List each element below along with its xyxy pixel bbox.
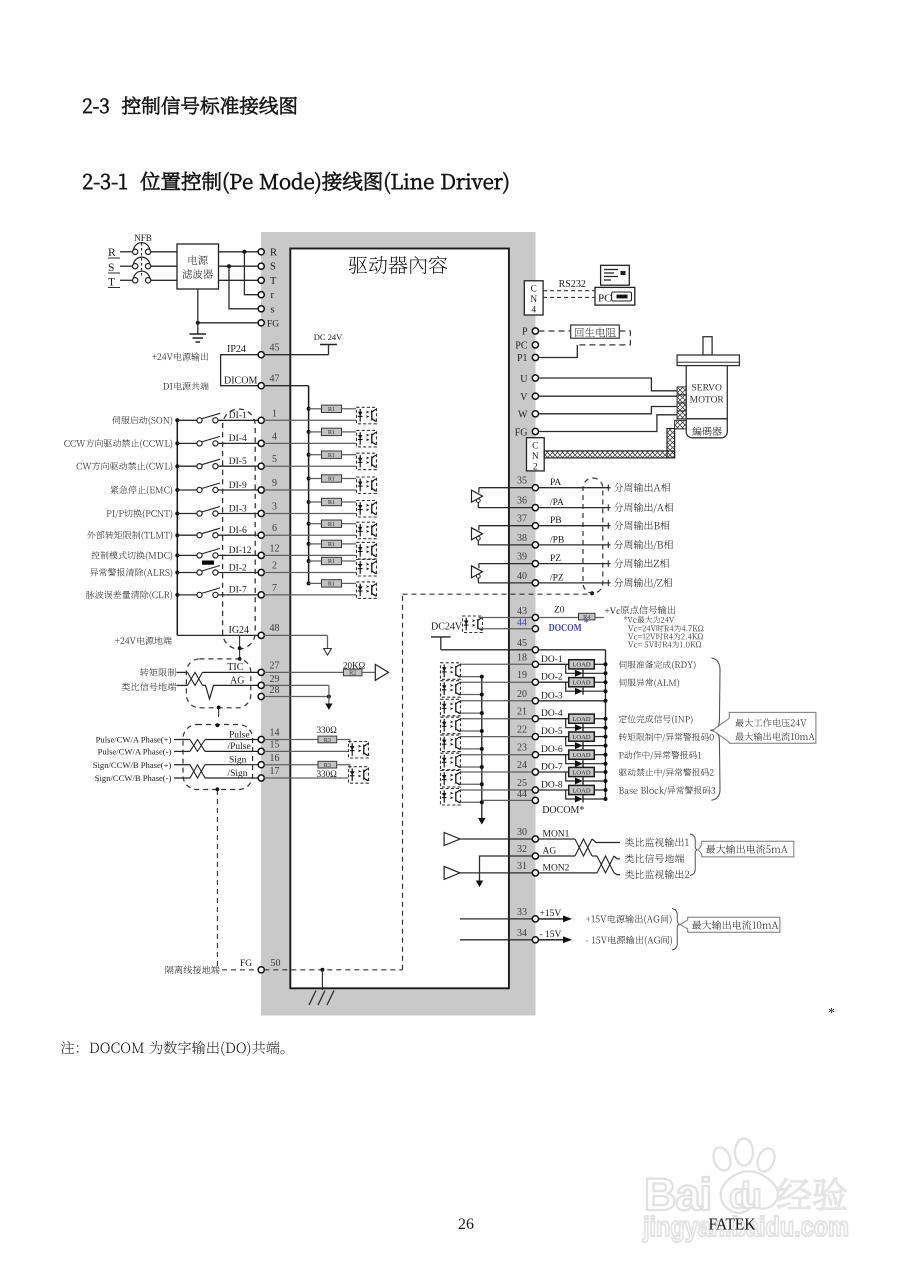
junction DICOM bus row DI-9 [307, 477, 311, 481]
switch DI-7 [197, 588, 220, 598]
svg-text:DOCOM: DOCOM [549, 622, 582, 634]
wire -15V internal [460, 939, 535, 941]
optocoupler DI row DI-12 [357, 542, 377, 559]
terminal 25 (DO-8) [532, 787, 538, 793]
svg-text:Pulse: Pulse [229, 730, 250, 740]
wire bus to switch DI-9 [177, 489, 197, 491]
watermark 经验 [777, 1178, 846, 1211]
wire end tick PB [607, 523, 609, 529]
signal ground arrow (IG24) [324, 649, 332, 656]
wire FG ground drop [321, 970, 323, 990]
svg-text:S: S [108, 262, 114, 274]
wire 45 to load bus [539, 649, 606, 651]
optocoupler DO-5 [441, 735, 461, 752]
motor terminal hatching V [677, 395, 686, 403]
svg-text:PB: PB [550, 516, 562, 526]
svg-text:9: 9 [272, 478, 277, 489]
dashed group box analog torque pair [186, 659, 250, 708]
encoder cable (shielded) vertical [667, 429, 675, 458]
wire DO-7 to load [539, 771, 569, 773]
label 分周输出A相 [614, 483, 670, 492]
optocoupler DI row DI-3 [357, 501, 377, 518]
wire R2 to amplifier [362, 671, 375, 673]
svg-text:MOTOR: MOTOR [690, 396, 725, 406]
junction load DO-2 bus [604, 680, 608, 684]
label 转矩限制 [140, 668, 176, 676]
terminal s [258, 306, 264, 312]
note Vc=24V R4 4.7K [628, 625, 703, 632]
wire load DO-1 to bus [594, 663, 605, 665]
label DI-7 脉波误差量清除(CLR) [86, 591, 172, 601]
servo drive enclosure frame [261, 232, 536, 1016]
dashed group box DI labels [223, 409, 256, 649]
wire opto DO-4 to bus [461, 730, 482, 732]
ground arrow DO bus [478, 818, 486, 825]
wire DICOM bus to R1 row DI-6 [309, 523, 322, 525]
resistor R1 row DI-3 [322, 498, 342, 506]
terminal 33 (+15V) [532, 916, 538, 922]
junction load DO-1 bus [604, 662, 608, 666]
svg-text:50: 50 [271, 958, 281, 969]
resistor R4 [579, 613, 596, 621]
brace DO outputs [710, 658, 720, 801]
junction opto DO-4 bus [480, 729, 484, 733]
resistor R1 row DI-1 [322, 405, 342, 413]
svg-text:/Sign: /Sign [228, 769, 248, 779]
wire AG internal [480, 856, 536, 881]
junction DI bus [175, 593, 179, 597]
svg-text:R1: R1 [328, 452, 335, 459]
svg-text:FG: FG [267, 319, 279, 329]
svg-text:4: 4 [531, 306, 536, 316]
wire opto DO-5 to bus [461, 748, 482, 750]
svg-text:29: 29 [270, 674, 280, 685]
terminal U [532, 375, 538, 381]
svg-text:Pulse/CW/A Phase(-): Pulse/CW/A Phase(-) [98, 747, 172, 757]
wire PB to terminal [479, 525, 536, 527]
junction DI bus [175, 418, 179, 422]
wire PA to terminal [479, 487, 536, 489]
terminal r [258, 292, 264, 298]
switch DI-6 [197, 528, 220, 538]
junction DI bus [175, 512, 179, 516]
load DO-8 [569, 785, 595, 794]
svg-text:r: r [271, 290, 275, 301]
label 类比监视输出2 [625, 870, 690, 879]
terminal FG (mains) [258, 320, 264, 326]
junction shield analog bottom [217, 706, 221, 710]
terminal FG (motor) [532, 428, 538, 434]
terminal 43 (Z0) [532, 614, 538, 620]
svg-text:32: 32 [517, 844, 527, 855]
switch DI-2 [197, 566, 220, 576]
wire switch to terminal DI-6 [218, 534, 258, 536]
wire terminal DI-1 into drive [264, 419, 356, 421]
wire Z0 opto to pin43 [479, 617, 536, 619]
svg-text:33: 33 [517, 907, 527, 918]
wire DICOM bus to R1 row DI-12 [309, 543, 322, 545]
wire R1 to optocoupler row DI-1 [342, 408, 357, 410]
svg-text:DI-2: DI-2 [229, 563, 247, 573]
wire opto DO-6 to terminal [461, 754, 536, 756]
dashed isolation boundary wire FG to barrier [264, 969, 402, 971]
wire IG24 into drive [264, 634, 327, 636]
wire R1 to optocoupler row DI-12 [342, 543, 357, 545]
junction DI bus [175, 488, 179, 492]
svg-text:R1: R1 [328, 558, 335, 565]
svg-text:R: R [270, 247, 277, 258]
svg-text:C: C [531, 285, 537, 295]
motor encoder section [686, 419, 727, 438]
resistor R3 (sign) [318, 761, 337, 769]
wire DICOM bus to R1 row DI-4 [309, 431, 322, 433]
buffer amp MON1 [444, 833, 460, 846]
resistor R1 row DI-4 [322, 428, 342, 436]
wire terminal DI-2 into drive [264, 572, 356, 574]
junction DICOM bus row DI-1 [307, 407, 311, 411]
wire /PB external [539, 544, 611, 546]
external jumper IP24-DICOM [221, 355, 259, 386]
dashed wire regen resistor to PC [577, 331, 630, 345]
optocoupler DI row DI-4 [357, 430, 377, 447]
label DI-2 异常警报清除(ALRS) [90, 568, 172, 578]
motor terminal hatching U [677, 387, 686, 395]
svg-text:12: 12 [270, 543, 280, 554]
flyback diode DO-4 [566, 719, 606, 732]
junction DI bus [175, 464, 179, 468]
wire bus to switch DI-7 [177, 594, 197, 596]
DO opto supply bus [481, 677, 483, 819]
svg-text:DO-3: DO-3 [541, 691, 563, 701]
wire load DO-7 to bus [594, 771, 605, 773]
wire 14 to R3 [264, 739, 318, 741]
line driver PZ pair [472, 564, 483, 583]
svg-text:FG: FG [240, 959, 252, 969]
wire /PA external [539, 507, 611, 509]
svg-text:LOAD: LOAD [572, 680, 591, 687]
brace 15V outputs [672, 909, 680, 951]
svg-text:7: 7 [272, 583, 277, 594]
svg-text:Pulse/CW/A Phase(+): Pulse/CW/A Phase(+) [96, 735, 172, 745]
wire end tick PZ [607, 560, 609, 566]
junction load DO-8 bus [604, 788, 608, 792]
svg-text:PA: PA [550, 478, 561, 488]
encoder connector hatching [675, 420, 687, 429]
optocoupler DO-2 [441, 681, 461, 698]
optocoupler DI row DI-5 [357, 453, 377, 470]
svg-text:27: 27 [270, 660, 280, 671]
wire end tick /PA [607, 504, 609, 510]
wire /PZ to terminal [478, 582, 535, 584]
wire DICOM bus to R1 row DI-2 [309, 560, 322, 562]
wire bus to switch DI-12 [177, 554, 197, 556]
wire opto DO-8 to terminal [461, 789, 536, 791]
wire opto DO-7 to bus [461, 783, 482, 785]
wire DC24V to terminal 45 [441, 649, 536, 651]
label 分周输出/B相 [614, 540, 673, 550]
terminal 50 (FG) [258, 967, 264, 973]
wire R4 to +Vc [595, 617, 604, 619]
wire opto DO-5 to terminal [461, 736, 536, 738]
wire load DO-2 to bus [594, 681, 605, 683]
junction diode DO-2 bus [604, 689, 608, 693]
svg-text:P1: P1 [517, 353, 528, 364]
twisted pair Sign [174, 765, 258, 778]
wire to terminal r [244, 252, 258, 295]
flyback diode DO-2 [566, 682, 606, 695]
wire bus to switch DI-1 [177, 419, 197, 421]
terminal 27 (TIC) [258, 669, 264, 675]
callout box max voltage/current [713, 712, 816, 743]
svg-text:*: * [828, 1006, 835, 1021]
wire U phase to motor [539, 378, 678, 391]
optocoupler Z0 [463, 616, 483, 633]
wire terminal DI-9 into drive [264, 489, 356, 491]
NC bar on switch DI-2 (ALRS) [202, 561, 214, 565]
junction shield at analog group box [238, 657, 242, 661]
optocoupler pulse [349, 742, 369, 759]
wire terminal DI-3 into drive [264, 513, 356, 515]
wire 28 into drive [264, 696, 329, 698]
optocoupler DO-7 [441, 771, 461, 788]
junction DICOM bus row DI-2 [307, 559, 311, 563]
label DI-1 伺服启动(SON) [112, 416, 172, 426]
connector CN4 [524, 281, 543, 316]
wire bus to switch DI-3 [177, 513, 197, 515]
label DI-5 CW方向驱动禁止(CWL) [77, 462, 173, 472]
wire /PB to terminal [478, 544, 535, 546]
wire switch to terminal DI-4 [218, 442, 258, 444]
note Vc=5V R4 1.0K [628, 641, 701, 648]
svg-text:AG: AG [543, 847, 557, 857]
svg-text:MON1: MON1 [543, 830, 570, 840]
load DO-7 [569, 767, 595, 776]
shield wire DI group to analog group [239, 635, 241, 659]
wire PZ external [539, 563, 611, 565]
svg-text:DC24V: DC24V [431, 622, 463, 633]
wire FG to filter ground [198, 322, 258, 324]
svg-text:3: 3 [272, 502, 277, 513]
svg-text:N: N [530, 295, 537, 305]
svg-text:DI-3: DI-3 [229, 504, 247, 514]
junction DICOM bus row DI-5 [307, 453, 311, 457]
label P动作中/异常警报码1 [619, 751, 701, 760]
svg-text:24: 24 [517, 760, 527, 771]
junction DI bus [175, 571, 179, 575]
svg-text:17: 17 [270, 766, 280, 777]
resistor R2 [343, 669, 362, 677]
svg-text:DO-4: DO-4 [541, 709, 563, 719]
label -15V电源输出(AG间) [586, 936, 672, 946]
terminal DI-6 pin 6 [258, 532, 264, 538]
isolation barrier dashed (top edge) [403, 593, 593, 595]
wire 43 to R4 [539, 617, 579, 619]
watermark paw logo [710, 1139, 778, 1214]
terminal W [532, 411, 538, 417]
label 驱动器内容 [349, 256, 447, 274]
svg-text:31: 31 [517, 861, 527, 872]
wire filter to terminal S [219, 265, 259, 267]
junction load DO-7 bus [604, 770, 608, 774]
junction DICOM bus row DI-3 [307, 500, 311, 504]
PC system unit icon [595, 287, 635, 305]
terminal 36 (/PA) [532, 505, 538, 511]
svg-text:du: du [729, 1175, 762, 1216]
svg-text:DO-1: DO-1 [541, 655, 563, 665]
junction diode DO-1 bus [604, 671, 608, 675]
terminal 17 [258, 775, 264, 781]
wire switch to terminal DI-3 [218, 513, 258, 515]
svg-text:16: 16 [270, 753, 280, 764]
load DO-2 [569, 678, 595, 687]
svg-text:DC 24V: DC 24V [314, 332, 343, 342]
terminal 44 (DOCOM*) [532, 797, 538, 803]
terminal letters R S T r s FG [267, 247, 279, 329]
svg-text:25: 25 [517, 778, 527, 789]
flyback diode DO-7 [566, 772, 606, 785]
label 分周输出B相 [614, 521, 670, 530]
junction opto DO-7 bus [480, 782, 484, 786]
label 隔离线接地端 [166, 966, 220, 974]
svg-text:LOAD: LOAD [572, 716, 591, 723]
svg-text:+Vc: +Vc [605, 606, 621, 616]
wire R phase [120, 251, 177, 253]
terminal T [258, 277, 264, 283]
svg-text:RS232: RS232 [559, 279, 586, 290]
label +15V电源输出(AG间) [586, 915, 672, 925]
twisted pair Pulse [174, 740, 258, 752]
label DOCOM (blue) [549, 617, 589, 634]
shield stub analog to pulse group [218, 708, 220, 717]
wire +15V internal [460, 918, 535, 920]
wire opto DO-3 to bus [461, 712, 482, 714]
wire DO-3 to bus [539, 700, 606, 702]
wire DICOM bus to R1 row DI-3 [309, 501, 322, 503]
terminal 18 (DO-1) [532, 661, 538, 667]
label DI-4 CCW方向驱动禁止(CCWL) [64, 439, 172, 449]
wire opto DO-7 to terminal [461, 771, 536, 773]
svg-text:Sign/CCW/B Phase(-): Sign/CCW/B Phase(-) [95, 773, 172, 783]
junction opto DO-6 bus [480, 765, 484, 769]
optocoupler DO-4 [441, 717, 461, 734]
terminal DI-1 pin 1 [258, 417, 264, 423]
svg-text:DO-8: DO-8 [541, 781, 563, 791]
terminal R [258, 249, 264, 255]
label 类比信号地端 (torque) [122, 682, 177, 690]
terminal 47 (DICOM) [258, 383, 264, 389]
junction shield at DI group box [238, 646, 242, 650]
svg-text:+15V: +15V [540, 909, 562, 919]
optocoupler DO-8 [441, 789, 461, 806]
callout box max current 5mA [698, 841, 794, 857]
optocoupler DO-3 [441, 699, 461, 716]
svg-text:AG: AG [230, 676, 244, 687]
label 伺服异常(ALM) [619, 678, 679, 687]
terminal P [532, 328, 538, 334]
wire switch to terminal DI-1 [218, 419, 258, 421]
switch DI-4 [197, 436, 220, 446]
svg-text:IP24: IP24 [227, 344, 246, 355]
wire terminal DI-6 into drive [264, 534, 356, 536]
wire load DO-4 to bus [594, 718, 605, 720]
wire R1 to optocoupler row DI-9 [342, 478, 357, 480]
svg-text:R: R [108, 247, 116, 259]
svg-text:35: 35 [517, 476, 527, 487]
svg-text:C: C [532, 442, 538, 452]
svg-text:R1: R1 [328, 429, 335, 436]
wire load DO-6 to bus [594, 754, 605, 756]
wire opto DO-6 to bus [461, 766, 482, 768]
label DI电源共端 [163, 382, 209, 390]
wire DICOM bus to R1 row DI-1 [309, 408, 322, 410]
wire +15V external arrow [539, 916, 573, 923]
servo motor body [686, 366, 727, 419]
svg-text:15: 15 [270, 740, 280, 751]
svg-text:- 15V: - 15V [540, 930, 562, 940]
svg-text:PC: PC [515, 340, 528, 351]
wire switch to terminal DI-7 [218, 594, 258, 596]
label 分周输出/Z相 [614, 578, 672, 588]
svg-text:22: 22 [517, 725, 527, 736]
svg-text:Sign: Sign [229, 756, 247, 766]
ground symbol (mains) [190, 334, 207, 342]
wire DICOM bus to R1 row DI-7 [309, 582, 322, 584]
buffer amp MON2 [444, 866, 460, 879]
svg-text:*: * [584, 617, 590, 629]
wire R1 to optocoupler row DI-2 [342, 560, 357, 562]
junction opto DO-3 bus [480, 711, 484, 715]
wire V phase to motor [539, 395, 678, 397]
wire end tick /PZ [607, 580, 609, 586]
junction diode DO-7 bus [604, 779, 608, 783]
optocoupler DO-6 [441, 753, 461, 770]
flyback diode DO-1 [566, 664, 606, 677]
label 转矩限制中/异常警报码0 [619, 733, 714, 742]
wire -15V external arrow [539, 936, 573, 943]
terminal PC [532, 342, 538, 348]
svg-text:DI-7: DI-7 [229, 586, 247, 596]
dashed RS232 link lower [543, 296, 595, 298]
svg-text:330Ω: 330Ω [317, 725, 338, 735]
svg-text:37: 37 [517, 514, 527, 525]
terminal P1 [532, 354, 538, 360]
switch DI-3 [197, 507, 220, 517]
junction shield pulse top [216, 723, 220, 727]
svg-text:36: 36 [517, 496, 527, 507]
junction on R line [242, 250, 246, 254]
wire end tick /PB [607, 542, 609, 548]
wire DICOM bus to R1 row DI-9 [309, 478, 322, 480]
external load supply bus [605, 650, 607, 799]
wire /PZ external [539, 582, 611, 584]
optocoupler DI row DI-7 [357, 582, 377, 599]
svg-text:DI-9: DI-9 [229, 481, 247, 491]
svg-text:1: 1 [272, 408, 277, 419]
wire R3 to opto sign [337, 765, 350, 769]
optocoupler DI row DI-2 [357, 560, 377, 577]
wire R1 to optocoupler row DI-6 [342, 523, 357, 525]
wire PA external [539, 487, 611, 489]
terminal 15 [258, 748, 264, 754]
svg-text:R1: R1 [328, 541, 335, 548]
junction DICOM bus row DI-6 [307, 522, 311, 526]
PC monitor icon [601, 265, 630, 285]
terminal V [532, 393, 538, 399]
terminal DI-3 pin 3 [258, 510, 264, 516]
junction shield encoder outputs [590, 591, 594, 595]
resistor R1 row DI-5 [322, 451, 342, 459]
junction DI bus [175, 533, 179, 537]
